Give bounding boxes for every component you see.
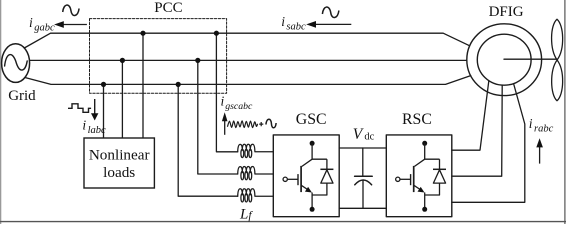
svg-text:i: i xyxy=(221,94,225,109)
svg-text:sabc: sabc xyxy=(286,21,306,32)
svg-text:gabc: gabc xyxy=(34,23,55,34)
svg-text:Nonlinear: Nonlinear xyxy=(89,147,150,164)
svg-text:i: i xyxy=(281,14,285,29)
svg-text:GSC: GSC xyxy=(296,111,327,128)
svg-text:i: i xyxy=(29,15,33,30)
svg-text:i: i xyxy=(529,116,533,131)
svg-text:dc: dc xyxy=(364,131,374,142)
svg-text:loads: loads xyxy=(103,164,135,181)
svg-text:gscabc: gscabc xyxy=(225,101,253,112)
svg-text:i: i xyxy=(82,117,86,132)
svg-text:RSC: RSC xyxy=(402,111,432,128)
svg-text:Grid: Grid xyxy=(8,88,36,104)
svg-text:L: L xyxy=(239,207,248,223)
svg-text:labc: labc xyxy=(88,125,106,136)
svg-text:PCC: PCC xyxy=(154,0,182,16)
svg-text:V: V xyxy=(353,126,364,143)
svg-text:DFIG: DFIG xyxy=(489,4,524,20)
svg-text:rabc: rabc xyxy=(534,124,554,135)
